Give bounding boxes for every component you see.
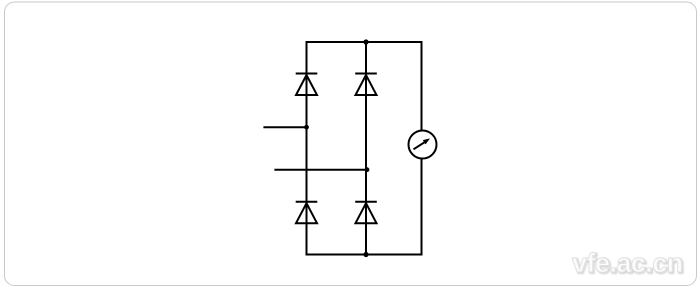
svg-text:vfe.ac.cn: vfe.ac.cn: [572, 248, 683, 278]
